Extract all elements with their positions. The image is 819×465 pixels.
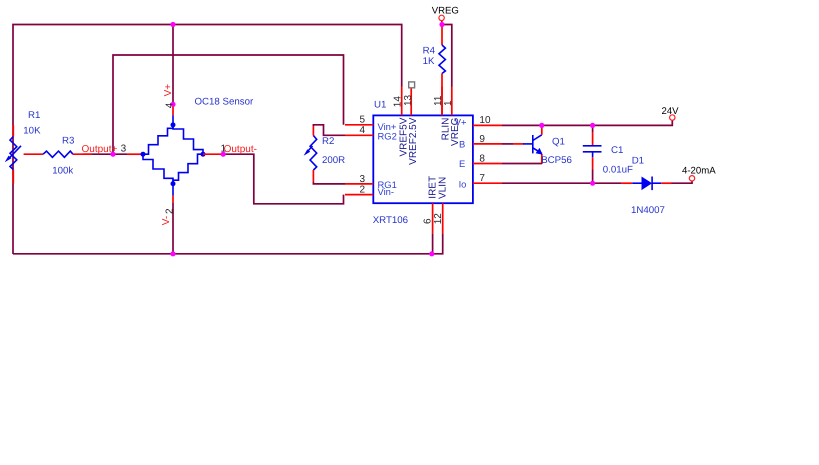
svg-text:6: 6 — [422, 218, 433, 224]
wire output+ row — [83, 153, 127, 155]
power port 24V — [670, 115, 675, 120]
svg-text:1N4007: 1N4007 — [631, 205, 665, 216]
svg-text:U1: U1 — [374, 99, 386, 110]
wire Q1 base pin stub — [513, 143, 524, 145]
sensor bridge arm top-right — [173, 125, 203, 154]
svg-text:C1: C1 — [611, 145, 623, 156]
U1 pin 10 — [473, 124, 502, 126]
svg-text:13: 13 — [403, 94, 414, 106]
svg-text:RG2: RG2 — [378, 131, 397, 142]
sensor bridge lead top — [172, 115, 174, 125]
wire output+ to pin5 upper run — [113, 55, 344, 154]
svg-text:12: 12 — [433, 213, 444, 225]
resistor R1 pin bottom — [12, 170, 14, 184]
wire Q1 emitter to pin8 — [541, 154, 543, 164]
svg-text:VREG: VREG — [432, 6, 459, 17]
resistor R1 pin top — [12, 125, 14, 137]
wire R1 wiper to R3 — [24, 153, 43, 155]
no-connect square pin 13 — [409, 82, 415, 88]
diode D1 1N4007 — [622, 177, 672, 191]
svg-text:10: 10 — [479, 115, 491, 126]
U1 pin 3 — [345, 183, 373, 185]
svg-text:Q1: Q1 — [552, 136, 565, 147]
svg-text:1: 1 — [221, 143, 227, 154]
wire bridge V+ drop — [172, 25, 174, 105]
svg-text:V+: V+ — [163, 84, 174, 97]
svg-text:E: E — [459, 158, 465, 169]
svg-text:24V: 24V — [662, 106, 680, 117]
wire D1 to 4-20mA terminal — [672, 181, 693, 183]
svg-text:0.01uF: 0.01uF — [603, 164, 633, 175]
U1 pin 14 — [401, 87, 403, 116]
svg-text:2: 2 — [360, 184, 366, 195]
wire pin8 row — [502, 163, 542, 165]
svg-text:D1: D1 — [632, 155, 644, 166]
resistor R3 pin right — [73, 153, 92, 155]
svg-text:VLIN: VLIN — [437, 177, 448, 199]
svg-text:100k: 100k — [52, 166, 73, 177]
sensor bridge arm top-left — [143, 125, 173, 154]
wire VREG port riser — [442, 25, 452, 87]
potentiometer R2 body — [310, 136, 317, 171]
sensor bridge arm bottom-left — [143, 154, 173, 184]
resistor R4 pin bottom joins pin11 — [441, 74, 443, 116]
U1 pin 12 — [442, 203, 444, 233]
sensor bridge pin 4 stub — [172, 104, 174, 115]
svg-text:8: 8 — [479, 154, 485, 165]
power port 4-20mA — [689, 176, 694, 181]
svg-text:R1: R1 — [28, 110, 40, 121]
potentiometer R2 pin top — [312, 126, 314, 136]
wire output- to pin2 — [223, 154, 343, 204]
svg-text:Output+: Output+ — [82, 144, 118, 155]
resistor R1 body — [10, 137, 17, 170]
sensor bridge pin 2 stub — [172, 196, 174, 203]
sensor bridge lead bottom — [172, 184, 174, 196]
wire bottom rail V- net — [13, 233, 443, 254]
wire top rail VREF5V net — [13, 25, 402, 255]
svg-text:3: 3 — [121, 144, 127, 155]
wire 24V rail — [502, 120, 672, 125]
svg-text:R2: R2 — [322, 136, 334, 147]
svg-text:4: 4 — [360, 125, 366, 136]
svg-text:Vin-: Vin- — [378, 186, 395, 197]
svg-text:R3: R3 — [62, 136, 74, 147]
svg-text:10K: 10K — [23, 126, 41, 137]
power port VREG — [439, 15, 444, 24]
svg-text:7: 7 — [479, 173, 485, 184]
U1 pin 5 — [345, 124, 373, 126]
potentiometer R2 pin bottom — [312, 170, 314, 182]
U1 pin 2 — [345, 194, 373, 196]
svg-text:4: 4 — [164, 102, 175, 108]
resistor R1 wiper arrow — [5, 146, 21, 162]
wire C1 lower — [592, 170, 594, 184]
svg-text:2: 2 — [164, 208, 175, 214]
U1 pin 7 — [473, 182, 502, 184]
capacitor C1 — [583, 132, 602, 170]
U1 pin 9 — [473, 143, 502, 145]
svg-text:VREF2.5V: VREF2.5V — [408, 117, 419, 165]
U1 pin 1 — [451, 87, 453, 116]
svg-text:V-: V- — [161, 216, 172, 225]
U1 pin 13 — [410, 88, 412, 115]
U1 pin 8 — [473, 163, 502, 165]
svg-text:Output-: Output- — [224, 144, 257, 155]
svg-text:1K: 1K — [423, 56, 435, 67]
wire node Output+ to bridge — [127, 153, 143, 155]
svg-text:5: 5 — [360, 115, 366, 126]
wire R2 bottom to pin3 — [313, 182, 345, 184]
sensor bridge node dots — [141, 122, 206, 186]
svg-text:R4: R4 — [423, 45, 436, 56]
svg-text:200R: 200R — [322, 155, 345, 166]
svg-text:BCP56: BCP56 — [541, 155, 572, 166]
transistor Q1 BCP56 — [523, 135, 543, 155]
resistor R4 pin top — [441, 25, 443, 46]
wire pin6 lower segment — [432, 233, 434, 254]
wire Q1 base segment — [502, 143, 513, 145]
U1 pin 6 — [432, 203, 434, 233]
svg-text:4-20mA: 4-20mA — [682, 165, 716, 176]
U1 pin 4 — [345, 134, 373, 136]
resistor R4 body — [439, 45, 445, 74]
wire Io row — [502, 182, 622, 184]
svg-text:XRT106: XRT106 — [373, 215, 408, 226]
sensor bridge arm bottom-right — [173, 154, 203, 184]
wire Q1 collector stub — [541, 125, 543, 134]
svg-text:1: 1 — [443, 100, 454, 106]
svg-text:3: 3 — [360, 174, 366, 185]
svg-text:OC18 Sensor: OC18 Sensor — [195, 97, 254, 108]
svg-text:Io: Io — [459, 178, 467, 189]
U1 pin 11 — [441, 87, 443, 116]
wire sensor V- drop — [172, 203, 174, 254]
op-amp U1 XRT106 body — [373, 115, 473, 203]
sensor bridge pin 1 stub — [203, 153, 223, 155]
potentiometer R2 wiper arrow — [304, 146, 313, 156]
wire R2 top jog to pin4 — [313, 125, 345, 136]
resistor R3 body — [43, 151, 73, 157]
svg-text:VREG: VREG — [450, 117, 461, 146]
svg-text:9: 9 — [479, 134, 485, 145]
wire C1 upper — [592, 125, 594, 132]
